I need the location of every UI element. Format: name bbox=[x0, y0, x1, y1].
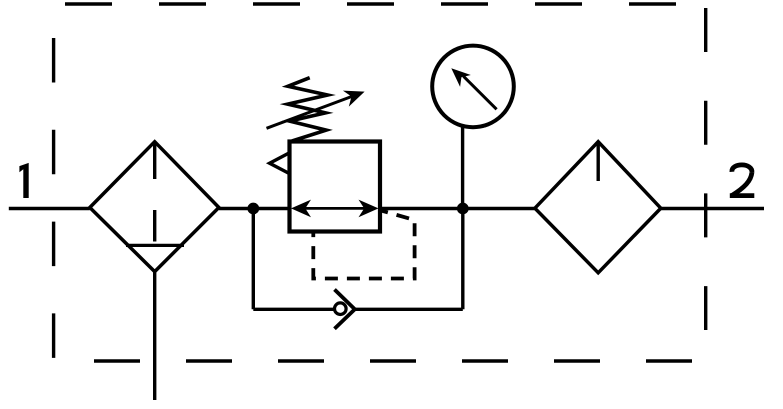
pressure gauge G1 needle arrowhead bbox=[451, 68, 471, 87]
regulator R1 flow arrowhead right bbox=[359, 200, 379, 218]
enclosure dashed border left bbox=[52, 38, 55, 358]
regulator R1 pilot line (dashed) bbox=[313, 211, 414, 279]
enclosure dashed border bottom bbox=[94, 359, 692, 362]
filter F1 element dashed centre line upper segment bbox=[153, 142, 156, 179]
regulator R1 flow arrow shaft bbox=[295, 207, 374, 210]
pressure gauge G1 dial circle bbox=[432, 46, 514, 128]
wire gauge stem bbox=[461, 127, 464, 209]
filter F1 water sump separator line bbox=[126, 244, 184, 247]
right diamond (outlet filter) body bbox=[535, 142, 661, 273]
wire filter F1 condensate drain bbox=[153, 272, 156, 400]
port label 1 bbox=[19, 163, 28, 198]
wire port 1 to filter inlet bbox=[9, 207, 90, 210]
wire bypass branch bottom left bbox=[253, 308, 334, 311]
pressure gauge G1 needle shaft bbox=[464, 76, 497, 109]
regulator R1 flow arrowhead left bbox=[291, 200, 311, 218]
regulator R1 adjustment arrowhead bbox=[343, 91, 365, 107]
check valve V1 poppet circle bbox=[335, 303, 347, 315]
right diamond internal element line bbox=[597, 142, 600, 181]
port label 2 bbox=[730, 165, 755, 196]
wire bypass branch left vertical bbox=[252, 209, 255, 310]
node B (regulator outlet / gauge junction) bbox=[457, 203, 469, 215]
regulator R1 relief spring chevron bbox=[270, 153, 290, 174]
enclosure dashed border top bbox=[65, 2, 676, 5]
check valve V1 seat upper line bbox=[335, 290, 355, 310]
enclosure dashed border right bbox=[704, 8, 707, 330]
wire right diamond outlet to port 2 bbox=[661, 207, 764, 210]
regulator R1 body bbox=[290, 142, 381, 232]
regulator R1 adjustment spring zigzag bbox=[288, 78, 328, 141]
node A (regulator inlet junction) bbox=[247, 203, 259, 215]
check valve V1 seat lower line bbox=[335, 309, 355, 329]
filter F1 element dashed centre line lower segment bbox=[153, 210, 156, 242]
wire regulator outlet to right diamond inlet bbox=[380, 207, 535, 210]
wire bypass branch bottom right bbox=[355, 308, 463, 311]
wire bypass branch right vertical bbox=[461, 209, 464, 310]
regulator R1 adjustment arrow shaft bbox=[267, 96, 353, 128]
filter F1 body (diamond with water separator) bbox=[90, 142, 219, 272]
wire filter outlet to regulator inlet bbox=[219, 207, 290, 210]
